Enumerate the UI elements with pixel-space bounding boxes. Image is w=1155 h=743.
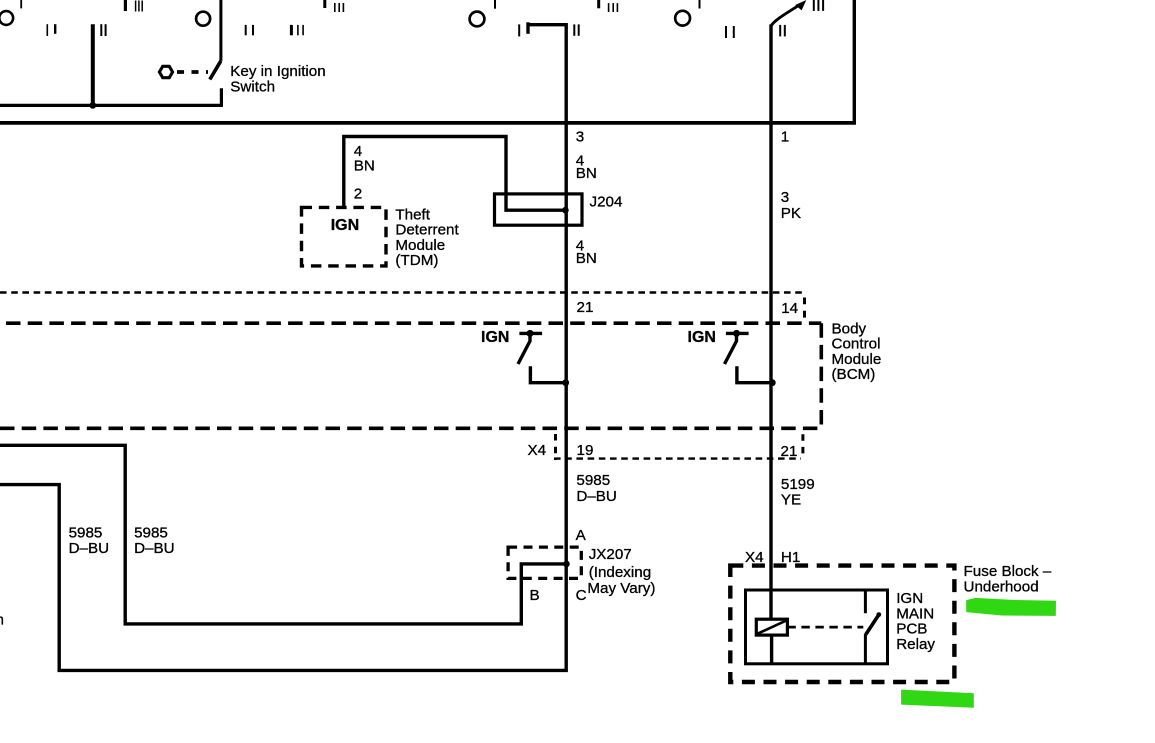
svg-text:5985: 5985 (134, 525, 168, 542)
ignition switch housing bottom border (0, 0, 856, 123)
wafer position ticks L (599, 0, 618, 12)
dotted harness line upper (0, 291, 803, 293)
svg-text:BN: BN (576, 250, 597, 267)
svg-text:5985: 5985 (576, 472, 610, 489)
green highlighter mark 2 (901, 690, 974, 708)
relay contact lower terminal (864, 634, 867, 664)
svg-text:1: 1 (781, 129, 789, 146)
relay coil return stub (770, 635, 773, 664)
blade arrowhead (795, 0, 806, 10)
key-in switch fixed wire (219, 0, 222, 61)
svg-text:IGN: IGN (331, 217, 359, 234)
svg-text:C: C (576, 587, 587, 604)
key-in switch dashed actuator link (177, 70, 208, 74)
wire label 3 PK (781, 189, 801, 222)
relay contact blade (866, 612, 881, 634)
wire label 5985 D-BU left pair 1 (69, 525, 110, 558)
wafer position ticks on W2 (780, 25, 785, 37)
Theft Deterrent Module dashed box (302, 207, 387, 266)
svg-text:D–BU: D–BU (69, 540, 110, 557)
svg-text:21: 21 (781, 443, 798, 460)
wafer position ticks D (125, 0, 142, 12)
svg-text:YE: YE (781, 492, 801, 509)
junction dot BCM switch 2 (769, 379, 776, 386)
wire label 5985 D-BU left pair 2 (134, 525, 175, 558)
wafer position ticks K (574, 24, 578, 35)
svg-text:Relay: Relay (896, 636, 935, 653)
ignition switch internal bus wire (0, 88, 221, 105)
svg-text:May Vary): May Vary) (587, 580, 655, 597)
wire label 4 BN lower (576, 238, 597, 268)
svg-text:(BCM): (BCM) (832, 366, 876, 383)
TDM branch wire 4 BN (344, 137, 563, 211)
pin 14 connector dashed edge (803, 298, 806, 319)
svg-text:JX207: JX207 (589, 546, 632, 563)
wire label 5985 D-BU on W1 (576, 472, 617, 505)
wire W1 circuit 4 BN from ignition switch to JX207 and left edge (0, 25, 566, 671)
label JX207 Indexing May Vary (587, 546, 655, 597)
key-in switch blade (210, 61, 221, 80)
splice JX207 dashed box (508, 547, 581, 578)
junction dot BCM switch 1 (562, 379, 569, 386)
junction dot JX207 (563, 561, 570, 568)
svg-text:Underhood: Underhood (964, 578, 1039, 595)
wafer position ticks B (47, 24, 55, 36)
relay actuation dashed link (787, 626, 863, 629)
ignition switch blade arc on W2 (771, 6, 798, 26)
relay contact fixed terminal (864, 590, 867, 613)
wire label 4 BN upper (576, 153, 597, 183)
wafer position ticks F (246, 25, 253, 35)
svg-text:PK: PK (781, 205, 801, 222)
svg-text:BN: BN (576, 165, 597, 182)
svg-text:(TDM): (TDM) (395, 252, 438, 269)
svg-text:3: 3 (781, 189, 789, 206)
splice J204 box (495, 194, 583, 225)
BCM dashed box top (6, 321, 821, 325)
IGN MAIN PCB Relay inner box (746, 590, 888, 664)
dotted connector line lower (554, 457, 801, 459)
svg-text:21: 21 (577, 299, 594, 316)
svg-text:n: n (0, 612, 4, 629)
svg-text:Switch: Switch (230, 78, 275, 95)
svg-text:BN: BN (354, 158, 375, 175)
label Key in Ignition Switch (230, 63, 325, 96)
TDM branch labels 4 BN and pin 2 (354, 143, 375, 203)
relay name text IGN MAIN PCB Relay (896, 590, 935, 653)
svg-text:D–BU: D–BU (576, 488, 617, 505)
wafer position ticks G (291, 25, 303, 35)
key-in switch contact hexagon (159, 66, 172, 77)
switch contact circle E (196, 12, 210, 26)
svg-text:J204: J204 (590, 194, 623, 211)
switch contact circle A (0, 0, 21, 25)
connector dashed separator right of 21 (801, 434, 804, 454)
svg-text:19: 19 (577, 442, 594, 459)
relay coil K1 (756, 619, 787, 635)
wire W2 circuit 3 PK from ignition switch to relay coil (769, 24, 772, 619)
svg-text:IGN: IGN (688, 329, 716, 346)
svg-text:5985: 5985 (69, 525, 103, 542)
svg-text:X4: X4 (528, 442, 547, 459)
svg-text:D–BU: D–BU (134, 540, 175, 557)
svg-text:B: B (530, 587, 540, 604)
svg-text:5199: 5199 (781, 476, 815, 493)
wafer position ticks N (726, 26, 734, 38)
BCM ignition sense switch 2 (725, 330, 770, 383)
wafer position ticks O (814, 0, 823, 11)
junction dot on bus (89, 102, 96, 109)
label Fuse Block Underhood (964, 563, 1052, 595)
BCM name text (832, 321, 882, 384)
svg-text:14: 14 (781, 300, 798, 317)
svg-text:3: 3 (576, 128, 584, 145)
BCM ignition sense switch 1 (518, 330, 563, 383)
switch contact circle M (675, 0, 699, 26)
connector dashed separator X4/19 (554, 434, 557, 460)
BCM dashed box bottom (0, 426, 821, 430)
svg-text:(Indexing: (Indexing (589, 564, 651, 581)
wafer position ticks H (325, 0, 344, 12)
BCM dashed box right edge (819, 323, 823, 428)
Fuse Block Underhood dashed box (730, 566, 954, 682)
green highlighter mark 1 (966, 598, 1056, 616)
junction dot J204 (562, 207, 569, 214)
wafer position ticks C (101, 24, 105, 36)
svg-text:Key in Ignition: Key in Ignition (230, 63, 325, 80)
svg-text:IGN: IGN (481, 329, 509, 346)
svg-text:A: A (576, 527, 587, 544)
wire label 5199 YE on W2 (781, 476, 815, 509)
TDM name text (395, 207, 459, 270)
wafer position ticks J (519, 22, 528, 36)
svg-text:2: 2 (354, 186, 362, 203)
wire branch B 5985 D-BU to left edge (0, 445, 567, 624)
wire stub wafer1 (91, 24, 95, 105)
switch contact circle I (470, 0, 495, 26)
